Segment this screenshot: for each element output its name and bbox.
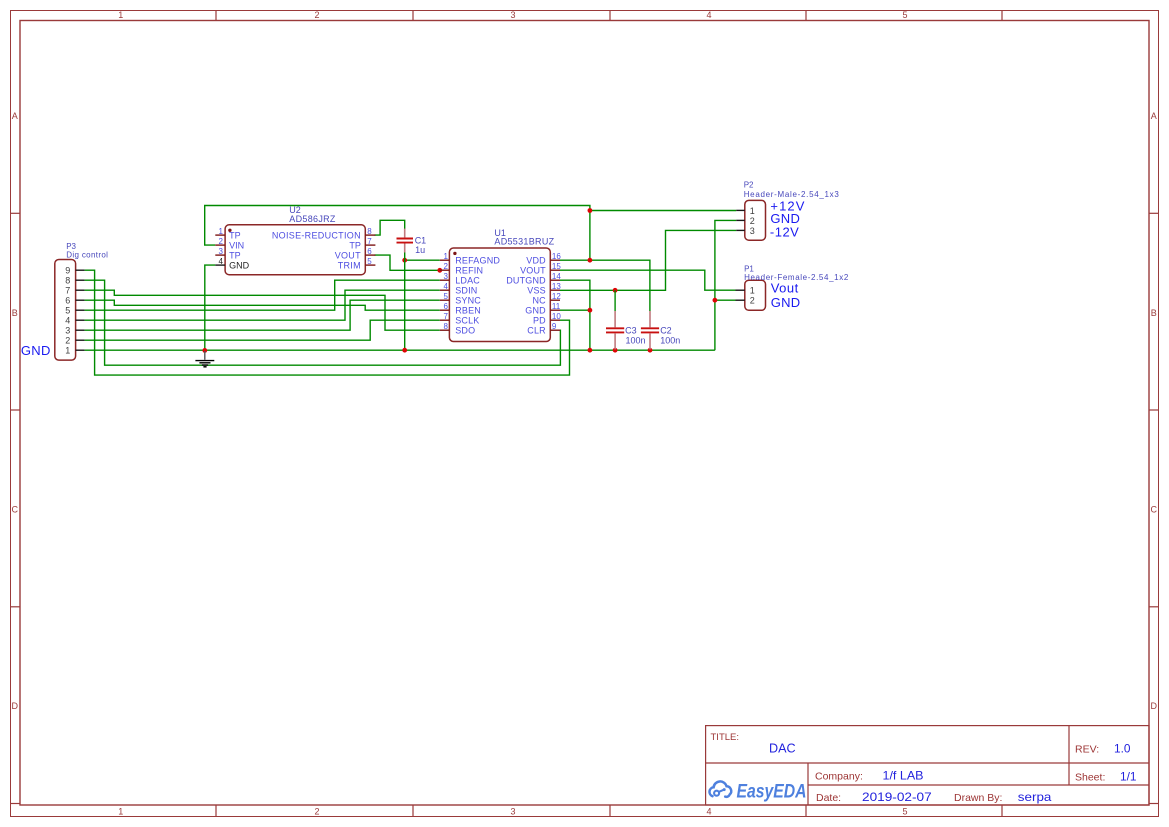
svg-text:10: 10 [552, 312, 561, 321]
wire GND net: U1 REFAGND to C1 lead [405, 259, 440, 261]
svg-text:2: 2 [314, 10, 319, 20]
svg-text:C1: C1 [415, 235, 427, 245]
P3 pin numbers 9..1 [65, 266, 70, 356]
svg-text:LDAC: LDAC [455, 275, 480, 285]
wire GND net: U1 GND pin 11 [560, 309, 590, 311]
svg-text:-12V: -12V [770, 224, 799, 239]
svg-text:VIN: VIN [229, 240, 244, 250]
wire GND net: C1 lead down to ground rail [404, 252, 406, 350]
junction -12V at C3 top [613, 288, 618, 293]
svg-text:8: 8 [367, 227, 372, 236]
svg-text:SDIN: SDIN [455, 285, 477, 295]
svg-text:DUTGND: DUTGND [506, 275, 546, 285]
wire +12V net: branch to P2 pin 1 [590, 210, 736, 212]
svg-text:11: 11 [552, 302, 561, 311]
connector P1 body [745, 280, 766, 310]
svg-text:B: B [12, 308, 18, 318]
IC U2 AD586JRZ body [225, 225, 365, 275]
P1 pin stubs (black) [736, 290, 745, 300]
svg-text:serpa: serpa [1018, 790, 1052, 804]
svg-text:5: 5 [443, 292, 448, 301]
svg-text:Dig control: Dig control [66, 250, 108, 259]
svg-text:1: 1 [118, 10, 123, 20]
connector P2 body [745, 200, 766, 240]
wire GND net: rail up to P2 pin 2 [715, 220, 736, 350]
P2 pin numbers [750, 206, 755, 236]
svg-text:NOISE-REDUCTION: NOISE-REDUCTION [272, 230, 361, 240]
svg-text:VSS: VSS [527, 285, 546, 295]
svg-text:5: 5 [902, 806, 907, 816]
capacitor C1 plates [397, 239, 414, 243]
wire VOUT net: U1 VOUT to P1 pin 1 [560, 270, 736, 290]
svg-text:Drawn By:: Drawn By: [954, 792, 1002, 804]
wire GND net: branch to P1 pin 2 [715, 299, 736, 301]
svg-text:100n: 100n [660, 335, 680, 345]
svg-text:C3: C3 [625, 326, 637, 336]
U1 right pin names [506, 255, 546, 335]
svg-text:RBEN: RBEN [455, 305, 481, 315]
svg-text:3: 3 [443, 272, 448, 281]
svg-text:16: 16 [552, 252, 561, 261]
U2 pin 4 GND stub (black) [215, 264, 225, 266]
U2 left pin numbers [219, 227, 224, 256]
svg-text:C: C [1151, 505, 1158, 515]
wire NOISE-REDUCTION: U2 pin 8 to C1 top [375, 220, 405, 235]
U1 right pin stubs (16-9) [550, 260, 560, 330]
svg-text:2: 2 [443, 262, 448, 271]
svg-text:100n: 100n [626, 335, 646, 345]
svg-text:TRIM: TRIM [338, 260, 361, 270]
svg-text:4: 4 [706, 10, 711, 20]
svg-text:Sheet:: Sheet: [1075, 772, 1105, 784]
svg-text:TP: TP [229, 230, 241, 240]
svg-text:1: 1 [65, 346, 70, 356]
svg-text:4: 4 [219, 257, 224, 266]
U2 pin 1 marker dot [228, 229, 231, 232]
C3 bottom lead [614, 333, 616, 349]
svg-text:2: 2 [750, 296, 755, 306]
svg-text:GND: GND [21, 343, 51, 358]
svg-text:1: 1 [750, 206, 755, 216]
U1 left pin numbers [443, 252, 448, 331]
wire GND net: U1 DUTGND down to GND pin and rail [560, 280, 590, 350]
svg-text:1: 1 [443, 252, 448, 261]
svg-text:4: 4 [443, 282, 448, 291]
svg-text:3: 3 [510, 806, 515, 816]
svg-text:8: 8 [65, 276, 70, 286]
svg-text:7: 7 [443, 312, 448, 321]
svg-text:P2: P2 [744, 180, 754, 189]
wire digital D6: P3 pin 6 to U1 RBEN [85, 300, 440, 310]
svg-text:13: 13 [552, 282, 561, 291]
svg-text:1: 1 [750, 286, 755, 296]
svg-text:6: 6 [443, 302, 448, 311]
svg-text:2: 2 [219, 237, 224, 246]
svg-text:14: 14 [552, 272, 561, 281]
U2 right pin names [272, 230, 361, 270]
svg-text:3: 3 [219, 247, 224, 256]
svg-text:SYNC: SYNC [455, 295, 481, 305]
svg-text:REFIN: REFIN [455, 265, 483, 275]
svg-text:12: 12 [552, 292, 561, 301]
junction +12V at VDD [588, 258, 593, 263]
junction GND at P1 pin 2 [713, 298, 718, 303]
junctions on ground rail [202, 348, 207, 353]
svg-text:TP: TP [229, 250, 241, 260]
svg-text:7: 7 [367, 237, 372, 246]
wire digital D2: P3 pin 2 to U1 SCLK [85, 320, 440, 340]
wire -12V net: C3 top lead [614, 290, 616, 311]
svg-text:7: 7 [65, 286, 70, 296]
svg-text:1: 1 [219, 227, 224, 236]
C3 top lead [614, 311, 616, 327]
svg-text:1/f LAB: 1/f LAB [883, 769, 924, 783]
svg-text:3: 3 [65, 326, 70, 336]
wire digital D8: P3 pin 8 to U1 CLR [85, 280, 561, 365]
svg-text:EasyEDA: EasyEDA [737, 782, 807, 803]
wire GND net: U2 GND pin down to rail [205, 265, 216, 350]
svg-text:Date:: Date: [816, 792, 841, 804]
wire GND net: bottom ground rail [85, 349, 715, 351]
svg-text:TP: TP [349, 240, 361, 250]
svg-text:2: 2 [65, 336, 70, 346]
svg-text:2: 2 [314, 806, 319, 816]
svg-text:5: 5 [902, 10, 907, 20]
wire digital D3: P3 pin 3 to U1 SYNC [85, 300, 440, 330]
U1 left pin stubs (1-8) [440, 260, 450, 330]
P1 pin numbers [750, 286, 755, 306]
C1 top lead [404, 229, 406, 238]
capacitor C3 plates [606, 328, 624, 332]
svg-text:6: 6 [65, 296, 70, 306]
U1 left pin names [455, 255, 500, 335]
title block frame [706, 726, 1149, 805]
U1 pin 1 marker dot [453, 252, 456, 255]
C2 bottom lead [649, 333, 651, 349]
svg-text:A: A [12, 111, 18, 121]
svg-text:REFAGND: REFAGND [455, 255, 500, 265]
svg-text:GND: GND [771, 295, 801, 310]
P3 pin stubs (black) [76, 270, 85, 350]
svg-text:1u: 1u [415, 245, 425, 255]
svg-text:Vout: Vout [771, 281, 799, 296]
svg-text:5: 5 [65, 306, 70, 316]
ground symbol [195, 351, 214, 367]
svg-text:15: 15 [552, 262, 561, 271]
svg-text:VOUT: VOUT [335, 250, 361, 260]
svg-text:C2: C2 [660, 326, 672, 336]
svg-text:VDD: VDD [526, 255, 546, 265]
svg-text:PD: PD [533, 315, 546, 325]
wire digital D9: P3 pin 9 to U1 PD [85, 270, 570, 375]
connector P3 body [55, 260, 76, 361]
U2 left pin names [229, 230, 244, 260]
svg-text:1.0: 1.0 [1114, 741, 1131, 755]
svg-text:AD586JRZ: AD586JRZ [289, 214, 336, 224]
svg-text:D: D [1151, 701, 1158, 711]
svg-text:C: C [12, 505, 19, 515]
svg-text:9: 9 [65, 266, 70, 276]
svg-text:4: 4 [706, 806, 711, 816]
capacitor C2 plates [641, 328, 659, 332]
svg-text:5: 5 [367, 257, 372, 266]
svg-text:3: 3 [510, 10, 515, 20]
wire +12V net: U1 VDD to C2 top [560, 260, 650, 311]
P2 pin stubs (black) [736, 210, 745, 230]
wire +12V net: U2 VIN up-left to top rail [205, 206, 590, 261]
svg-text:2: 2 [750, 216, 755, 226]
svg-text:Company:: Company: [815, 771, 863, 783]
svg-text:1: 1 [118, 806, 123, 816]
svg-text:SDO: SDO [455, 325, 475, 335]
svg-text:VOUT: VOUT [520, 265, 546, 275]
wire digital D5: P3 pin 5 to U1 LDAC [85, 280, 440, 310]
svg-text:NC: NC [532, 295, 546, 305]
U2 pin stubs left (1 TP, 2 VIN, 3 TP) [215, 235, 225, 255]
junction at REFIN pin [437, 268, 442, 273]
wire digital D7: P3 pin 7 to U1 SDO [85, 290, 440, 330]
U1 right pin numbers [552, 252, 561, 331]
svg-text:SCLK: SCLK [455, 315, 479, 325]
junction GND / DUTGND riser [588, 308, 593, 313]
svg-text:8: 8 [443, 322, 448, 331]
svg-text:9: 9 [552, 322, 557, 331]
U2 right pin numbers [367, 227, 372, 266]
junction REFAGND / C1 [402, 258, 407, 263]
wire VREF: U2 VOUT to U1 REFIN [375, 255, 440, 270]
svg-text:GND: GND [525, 305, 546, 315]
svg-text:DAC: DAC [769, 741, 796, 756]
svg-text:3: 3 [750, 226, 755, 236]
svg-text:4: 4 [65, 316, 70, 326]
svg-text:AD5531BRUZ: AD5531BRUZ [494, 237, 554, 247]
C1 bottom lead [404, 244, 406, 253]
svg-text:REV:: REV: [1075, 743, 1099, 755]
svg-text:A: A [1151, 111, 1157, 121]
wire digital D4: P3 pin 4 to U1 SDIN [85, 290, 440, 320]
EasyEDA logo cloud icon [709, 781, 731, 796]
svg-text:GND: GND [229, 260, 250, 270]
IC U1 AD5531BRUZ body [449, 248, 550, 342]
svg-text:1/1: 1/1 [1120, 770, 1137, 784]
svg-text:D: D [12, 701, 19, 711]
svg-text:2019-02-07: 2019-02-07 [862, 790, 932, 804]
C2 top lead [649, 311, 651, 327]
svg-text:B: B [1151, 308, 1157, 318]
svg-text:6: 6 [367, 247, 372, 256]
wire -12V net: U1 VSS to P2 pin 3 [560, 230, 736, 290]
U2 pin stubs right (8,7,6,5) [365, 235, 375, 265]
svg-text:TITLE:: TITLE: [711, 732, 740, 743]
svg-text:CLR: CLR [527, 325, 546, 335]
junction +12V at P2 branch [588, 208, 593, 213]
